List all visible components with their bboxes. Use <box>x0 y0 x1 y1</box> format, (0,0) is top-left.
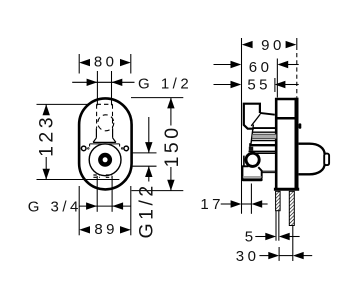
connector lines to body <box>262 170 277 172</box>
valve body (side view) fill <box>275 98 299 191</box>
body bottom bar <box>274 188 299 191</box>
30 dimension left reference <box>278 247 280 261</box>
dimension 89: extension lines <box>78 186 80 235</box>
bottom port G3/4 dimension line <box>79 205 131 207</box>
svg-text:80: 80 <box>94 54 118 71</box>
right pipe centerline <box>292 226 294 262</box>
dimension 80: arrows <box>79 59 90 66</box>
cartridge column (solid) <box>93 128 116 142</box>
cartridge nut <box>249 150 277 152</box>
dimension 55: right reference line <box>274 78 276 92</box>
elbow gray stripe <box>243 176 262 178</box>
small tab on right edge <box>299 123 302 128</box>
dimension 60: right reference line <box>276 59 278 98</box>
bottom port G3/4 arrows <box>86 202 97 209</box>
internal base line / 123 bottom reference <box>37 179 120 181</box>
left pipe (hatched) <box>276 191 281 210</box>
svg-text:5: 5 <box>245 229 257 246</box>
dimension 150: dimension line <box>170 98 172 191</box>
top port G1/2 dimension line <box>72 81 134 83</box>
dimension 80: extension lines <box>78 54 80 74</box>
big escutcheon circle <box>89 144 121 176</box>
dimension 123: arrows <box>43 104 50 115</box>
bottom port extension lines <box>96 176 98 212</box>
dimension 150: arrows <box>167 98 174 109</box>
svg-text:G 1/2: G 1/2 <box>138 75 192 92</box>
elbow top edge <box>242 165 249 167</box>
ledge <box>260 113 275 115</box>
dimension 90: arrows <box>242 41 253 48</box>
diagonal edge <box>251 114 260 126</box>
svg-text:60: 60 <box>249 59 273 76</box>
svg-text:17: 17 <box>200 196 224 213</box>
elbow left edge <box>241 166 243 180</box>
top port G1/2 arrows <box>87 79 98 86</box>
stem left edge <box>251 125 254 145</box>
elbow inlet line <box>243 156 245 167</box>
right extension line (solid then dashed) <box>296 38 298 50</box>
dimension 150: top tick <box>131 97 183 99</box>
svg-text:G 3/4: G 3/4 <box>28 198 82 215</box>
dimension 89: arrows <box>79 226 90 233</box>
handle block <box>244 104 260 129</box>
right screw boss <box>124 146 129 151</box>
svg-text:150: 150 <box>161 124 183 167</box>
svg-text:30: 30 <box>236 248 260 265</box>
body divider line <box>276 117 297 120</box>
side port G1/2 ticks <box>132 152 157 154</box>
svg-text:G1/2: G1/2 <box>136 182 158 238</box>
left screw boss <box>81 146 86 151</box>
ribbed sleeve <box>253 127 276 129</box>
screw boss circle (side) <box>246 153 259 166</box>
elbow block fill <box>242 166 262 179</box>
dimension 123: dimension line <box>45 104 47 179</box>
dimension 17: right reference line <box>250 184 252 214</box>
hidden cartridge top (dashed) <box>97 104 113 128</box>
hidden tabs below circle (dashed) <box>93 175 112 177</box>
dimension 150: bottom tick <box>132 190 184 192</box>
long left extension line <box>241 38 243 214</box>
spindle donut (black ring) <box>100 155 110 165</box>
body top edge <box>275 98 298 101</box>
svg-text:90: 90 <box>261 37 285 54</box>
left pipe wall lines <box>275 211 277 241</box>
body left edge <box>275 98 278 190</box>
valve box outline (stadium shape) <box>79 98 132 189</box>
dimension 55: tail and arrows <box>214 84 232 86</box>
right pipe (hatched) <box>289 191 294 225</box>
elbow bottom thick edge <box>243 178 261 181</box>
dimension 60: tail and arrows <box>214 64 232 66</box>
side port G1/2 arrows <box>145 142 152 153</box>
svg-text:123: 123 <box>36 114 58 157</box>
top port extension lines <box>96 71 98 105</box>
body right edge (thick) <box>295 98 299 190</box>
dome knob <box>324 154 329 166</box>
svg-text:89: 89 <box>94 221 118 238</box>
elbow right slant edge <box>258 167 261 178</box>
dome (valve cap, side) <box>299 144 325 175</box>
side port G1/2 dimension line <box>148 117 150 153</box>
svg-text:55: 55 <box>247 76 271 93</box>
cartridge flange line <box>90 144 120 147</box>
hidden cartridge circle (dashed) <box>98 115 114 131</box>
dimension 123: top tick <box>37 103 89 105</box>
